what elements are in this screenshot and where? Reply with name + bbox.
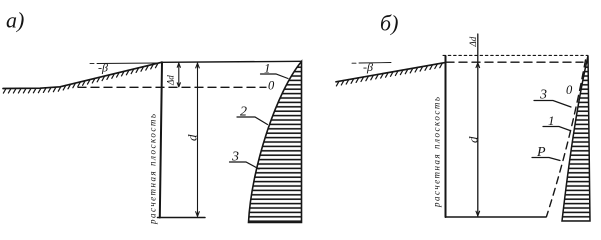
- svg-text:0: 0: [268, 79, 275, 93]
- svg-text:Δd: Δd: [166, 75, 176, 86]
- delta-d dimension line (fig a): [178, 63, 180, 87]
- wall bottom line (fig a): [158, 217, 206, 219]
- delta-d dimension arrows (fig a): [177, 63, 180, 87]
- beta reference line (fig a): [90, 62, 159, 65]
- svg-text:а): а): [6, 8, 24, 33]
- svg-text:Δd: Δd: [468, 36, 478, 47]
- ground hatch ticks (fig b): [336, 63, 442, 86]
- ground surface line (fig a): [3, 62, 162, 88]
- svg-text:d: d: [466, 136, 481, 143]
- svg-text:б): б): [380, 11, 398, 36]
- d / delta-d vertical line (fig b): [477, 34, 479, 216]
- ground hatch ticks (fig a): [3, 63, 158, 93]
- ground surface line (fig b): [336, 63, 445, 82]
- pressure diagram hatched epure (fig a): [249, 62, 302, 223]
- svg-text:d: d: [185, 134, 200, 141]
- ground surface top line to diagram (fig a): [162, 61, 302, 62]
- design plane wall line (fig a): [160, 62, 162, 217]
- d dimension line (fig a): [197, 63, 199, 217]
- dashed level line (fig b): [446, 61, 583, 63]
- d dimension arrows (fig a): [196, 63, 200, 216]
- svg-text:расчетная плоскость: расчетная плоскость: [148, 113, 158, 225]
- svg-text:1: 1: [264, 61, 271, 76]
- wall bottom line (fig b): [446, 216, 547, 218]
- svg-text:расчетная плоскость: расчетная плоскость: [432, 96, 442, 208]
- pressure diagram hatched epure (fig b): [562, 56, 590, 221]
- d dimension arrows (fig b): [476, 63, 480, 216]
- top dotted level line (fig b): [443, 54, 588, 56]
- design plane wall line (fig b): [445, 56, 447, 217]
- svg-text:1: 1: [548, 113, 555, 128]
- dashed diagonal pressure line P (fig b): [547, 60, 586, 217]
- svg-text:0: 0: [566, 83, 573, 97]
- original ground level dashed line (fig a): [78, 86, 266, 88]
- svg-text:-β: -β: [363, 60, 373, 74]
- svg-text:-β: -β: [98, 61, 108, 75]
- beta reference line (fig b): [352, 62, 391, 65]
